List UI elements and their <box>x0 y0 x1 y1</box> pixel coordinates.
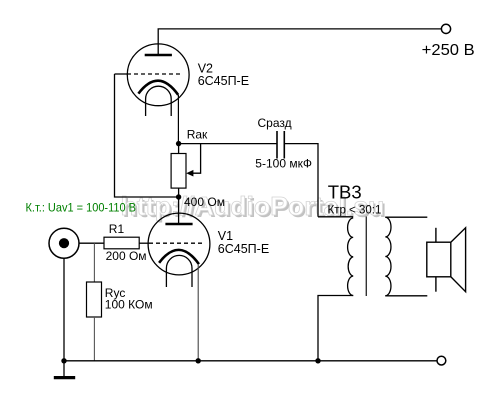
svg-text:+250 В: +250 В <box>422 42 475 59</box>
svg-text:100 КОм: 100 КОм <box>105 297 153 311</box>
svg-text:400 Ом: 400 Ом <box>184 195 225 209</box>
svg-text:Rак: Rак <box>187 128 208 142</box>
svg-text:V1: V1 <box>218 229 233 243</box>
svg-text:6С45П-Е: 6С45П-Е <box>198 74 249 88</box>
svg-text:R1: R1 <box>109 222 125 236</box>
svg-text:Ктр < 30:1: Ктр < 30:1 <box>328 204 382 216</box>
svg-text:200 Ом: 200 Ом <box>106 249 147 263</box>
svg-text:К.т.: Uav1 = 100-110 В: К.т.: Uav1 = 100-110 В <box>26 201 137 215</box>
svg-text:5-100 мкФ: 5-100 мкФ <box>255 156 312 170</box>
svg-text:6С45П-Е: 6С45П-Е <box>218 242 269 256</box>
svg-text:ТВ3: ТВ3 <box>328 182 362 203</box>
svg-text:Сразд: Сразд <box>258 116 292 130</box>
